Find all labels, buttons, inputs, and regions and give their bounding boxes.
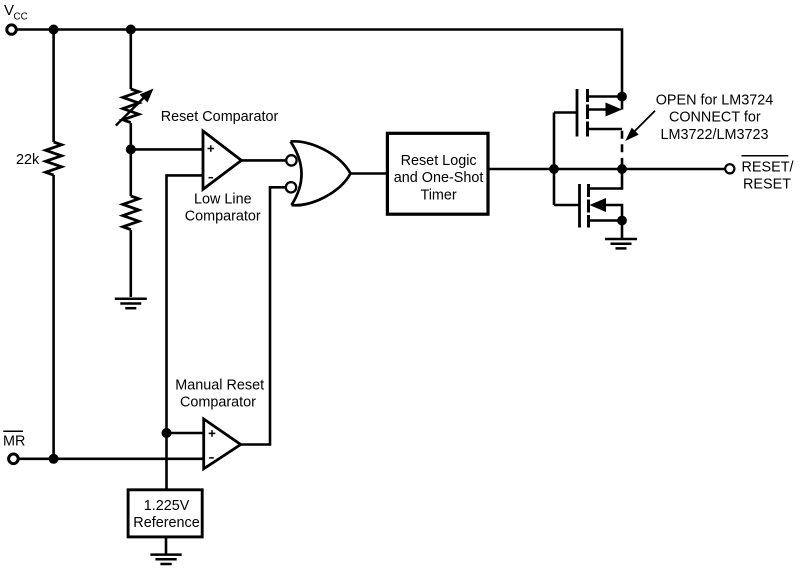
- svg-text:RESET: RESET: [743, 177, 791, 193]
- svg-text:Comparator: Comparator: [185, 208, 261, 224]
- svg-text:CONNECT for: CONNECT for: [669, 109, 761, 125]
- svg-text:Comparator: Comparator: [180, 395, 256, 411]
- svg-text:and One-Shot: and One-Shot: [394, 170, 484, 186]
- svg-text:MR: MR: [3, 434, 25, 450]
- svg-text:Reference: Reference: [133, 515, 199, 531]
- svg-text:OPEN for LM3724: OPEN for LM3724: [656, 92, 774, 108]
- svg-text:RESET/: RESET/: [742, 160, 794, 176]
- svg-text:1.225V: 1.225V: [144, 498, 190, 514]
- svg-text:LM3722/LM3723: LM3722/LM3723: [660, 127, 768, 143]
- svg-text:Reset Logic: Reset Logic: [401, 153, 477, 169]
- svg-text:Timer: Timer: [420, 188, 456, 204]
- svg-text:CC: CC: [14, 12, 28, 23]
- svg-text:Reset Comparator: Reset Comparator: [161, 109, 279, 125]
- svg-text:Manual Reset: Manual Reset: [175, 377, 264, 393]
- svg-text:22k: 22k: [16, 152, 40, 168]
- svg-text:Low Line: Low Line: [194, 191, 252, 207]
- svg-text:V: V: [4, 2, 14, 19]
